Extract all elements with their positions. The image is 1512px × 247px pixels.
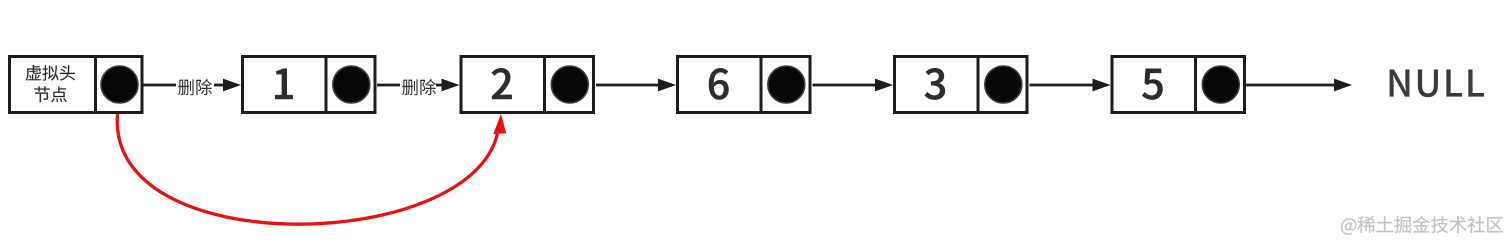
- wire: arrow N0 to N1 (second segment + arrowhead): [214, 84, 224, 87]
- wire: arrow N5 to NULL: [1246, 84, 1334, 87]
- node box N3: [895, 57, 1028, 113]
- node box N2: [461, 57, 594, 113]
- node N3 pointer dot: [985, 66, 1022, 103]
- node N2 value text 2: [492, 68, 512, 99]
- node N5 value text 5: [1142, 69, 1162, 100]
- node N0 (dummy head) cell divider: [94, 55, 97, 114]
- red bypass arrow: N0 pointer reroutes to N2 (curve): [117, 114, 497, 224]
- wire: arrow N1 to N2 (connector + arrowhead): [436, 84, 444, 87]
- node N6 value text 6: [709, 68, 728, 99]
- node N5 pointer dot: [1202, 66, 1239, 103]
- node N3 cell divider: [977, 55, 980, 114]
- node box N5: [1112, 57, 1245, 113]
- node N2 pointer dot: [551, 66, 588, 103]
- wire: arrow N2 to N6: [596, 84, 659, 87]
- wire: arrow N0 to N1 (first segment): [144, 84, 177, 87]
- node N1 cell divider: [325, 55, 328, 114]
- node N0 (dummy head) pointer dot: [101, 66, 138, 103]
- node N5 cell divider: [1194, 55, 1197, 114]
- node N1 pointer dot: [333, 66, 370, 103]
- wire: arrow N1 to N2 (first segment): [377, 84, 400, 87]
- node N2 cell divider: [543, 55, 546, 114]
- node box N0 (dummy head): [10, 57, 143, 113]
- watermark @稀土掘金技术社区: [1341, 216, 1503, 235]
- label 删除 on arrow N1->N2: [402, 79, 436, 95]
- wire: arrow N3 to N5: [1030, 84, 1094, 87]
- node box N1: [243, 57, 376, 113]
- NULL terminator text: [1390, 69, 1484, 97]
- node N6 cell divider: [760, 55, 763, 114]
- node N1 value text 1: [275, 69, 292, 99]
- node N6 pointer dot: [768, 66, 805, 103]
- node N3 value text 3: [925, 68, 945, 99]
- label 删除 on arrow N0->N1: [178, 79, 212, 95]
- wire: arrow N6 to N3: [813, 84, 877, 87]
- node N0 label text 虚拟头 / 节点: [26, 65, 75, 81]
- node box N6: [678, 57, 811, 113]
- red bypass arrow head (points up at N2 bottom): [493, 114, 506, 134]
